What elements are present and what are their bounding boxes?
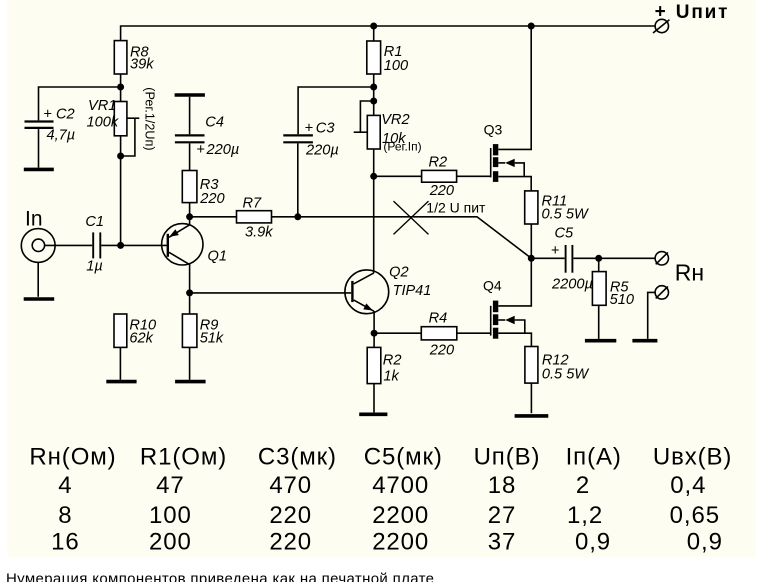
- wire Q1 collector to Q2 base: [190, 292, 352, 294]
- transistor Q2: [345, 264, 431, 313]
- svg-text:R2: R2: [429, 155, 448, 171]
- svg-text:R7: R7: [243, 196, 263, 212]
- wire rail to R1: [373, 26, 375, 41]
- resistor R2 (220): [422, 155, 457, 200]
- table: component values: [29, 444, 732, 556]
- resistor R11: [525, 191, 589, 224]
- wire In to C1: [45, 244, 93, 246]
- svg-text:2200: 2200: [372, 502, 429, 529]
- svg-text:16: 16: [51, 528, 80, 555]
- wire R7 right: [272, 216, 298, 218]
- ground (R10): [106, 380, 136, 384]
- svg-text:(Рег.Iп): (Рег.Iп): [383, 140, 421, 154]
- capacitor C1: [85, 214, 104, 275]
- transistor Q1: [162, 224, 227, 265]
- wire VR2 bottom to Q2 collector: [373, 149, 375, 273]
- svg-text:27: 27: [488, 502, 517, 529]
- terminal: Rн upper: [655, 252, 704, 286]
- svg-text:220µ: 220µ: [305, 143, 339, 159]
- svg-text:4: 4: [58, 472, 72, 499]
- svg-text:Uпит: Uпит: [676, 2, 729, 23]
- resistor R3: [182, 171, 224, 208]
- svg-text:470: 470: [269, 472, 312, 499]
- node: C5/R5: [595, 255, 602, 262]
- wire C1 to node: [101, 244, 120, 246]
- svg-text:62k: 62k: [129, 331, 153, 347]
- wire node to R9: [189, 293, 191, 314]
- node: R8/VR1/C2: [117, 84, 124, 91]
- svg-text:VR2: VR2: [381, 112, 409, 128]
- svg-text:220: 220: [269, 528, 312, 555]
- ground (C2): [24, 168, 54, 172]
- svg-text:+: +: [43, 107, 52, 123]
- ground (R12): [515, 414, 549, 418]
- terminal: Rн lower: [655, 286, 668, 299]
- svg-text:C1: C1: [85, 214, 104, 230]
- node: output: [528, 255, 535, 262]
- wire C4 to R3: [189, 143, 191, 170]
- wire VR2 top: [373, 101, 375, 115]
- ground (R9): [175, 380, 206, 384]
- resistor R12: [525, 347, 589, 384]
- svg-text:3.9k: 3.9k: [245, 225, 273, 241]
- svg-text:1k: 1k: [383, 369, 399, 385]
- svg-text:4,7µ: 4,7µ: [47, 128, 76, 144]
- resistor R9: [182, 314, 224, 347]
- wire C3 top to R1 node: [298, 87, 374, 134]
- svg-text:37: 37: [488, 528, 517, 555]
- svg-text:8: 8: [58, 502, 72, 529]
- svg-text:4700: 4700: [372, 472, 429, 499]
- marker X (1/2 Uпит): [394, 200, 487, 235]
- svg-text:In: In: [25, 207, 43, 230]
- wire C2 to ground: [38, 129, 40, 168]
- svg-text:220: 220: [269, 502, 312, 529]
- wire Q1 collector down: [189, 264, 191, 293]
- svg-text:0.5 5W: 0.5 5W: [542, 367, 589, 383]
- capacitor C3: [283, 121, 338, 159]
- potentiometer VR1: [87, 87, 157, 156]
- wire R3 to node: [189, 203, 191, 217]
- svg-text:R2: R2: [383, 353, 402, 369]
- svg-text:C5: C5: [555, 226, 575, 242]
- svg-text:18: 18: [488, 472, 517, 499]
- wire Q4 drain to output node: [498, 258, 531, 306]
- capacitor C4: [175, 115, 239, 158]
- svg-text:220: 220: [429, 343, 454, 359]
- svg-text:Rн: Rн: [675, 259, 704, 285]
- svg-text:Нумерация компонентов приведен: Нумерация компонентов приведена как на п…: [6, 571, 434, 582]
- wire R4 to Q4 gate: [457, 332, 490, 334]
- wire Q3 drain to rail: [498, 26, 531, 149]
- svg-text:220: 220: [199, 191, 224, 207]
- ground (R2 1k): [359, 412, 387, 416]
- svg-text:2200: 2200: [372, 528, 429, 555]
- wire VR1 bottom down to C1 node: [120, 136, 122, 246]
- ground (C4 top, inverted): [175, 93, 205, 97]
- node: VR2 top: [370, 98, 377, 105]
- svg-text:220: 220: [429, 183, 454, 199]
- svg-text:1,2: 1,2: [567, 502, 603, 529]
- wire R11 to output node: [530, 224, 532, 258]
- resistor R5: [592, 272, 634, 308]
- ground (R5): [585, 339, 616, 343]
- caption: [6, 571, 434, 582]
- wire C3 bottom: [297, 143, 299, 216]
- svg-text:0,4: 0,4: [670, 472, 706, 499]
- capacitor C2: [25, 107, 76, 144]
- node: Q2 emitter/R4/R2: [371, 330, 378, 337]
- node: rail/Q3 junction: [528, 23, 535, 30]
- svg-text:С3(мк): С3(мк): [258, 444, 337, 471]
- wire Q2 emitter down: [373, 311, 375, 333]
- resistor R2 (1k): [367, 347, 401, 384]
- svg-text:С5(мк): С5(мк): [364, 444, 443, 471]
- node: R7/C3: [294, 213, 301, 220]
- wire Q3 source to R11: [498, 177, 531, 191]
- svg-text:С2: С2: [56, 107, 75, 123]
- wire node to Q1 base: [121, 244, 167, 246]
- wire node to R4: [374, 332, 421, 334]
- svg-text:Uп(В): Uп(В): [474, 444, 541, 471]
- svg-text:510: 510: [610, 292, 634, 308]
- svg-text:200: 200: [149, 528, 192, 555]
- wire In to ground: [37, 262, 39, 296]
- wire to C2: [39, 87, 121, 120]
- svg-text:R1(Ом): R1(Ом): [140, 444, 227, 471]
- wire ground to C4: [189, 97, 191, 135]
- node: VR2 bottom/R2: [370, 173, 377, 180]
- svg-text:0,65: 0,65: [670, 502, 720, 529]
- svg-text:C4: C4: [205, 115, 224, 131]
- svg-text:2200µ: 2200µ: [551, 277, 593, 293]
- node: Q1 collector/R9/Q2 base: [186, 289, 193, 296]
- ground (terminal): [632, 339, 657, 343]
- wire R8 bottom: [120, 74, 122, 87]
- svg-text:1µ: 1µ: [86, 259, 103, 275]
- wire R9 to ground: [189, 347, 191, 379]
- node: VR1 bottom: [117, 153, 124, 160]
- svg-text:Uвх(В): Uвх(В): [653, 444, 732, 471]
- svg-text:Q3: Q3: [484, 121, 503, 137]
- svg-text:+: +: [655, 2, 666, 23]
- wire to output (with bend): [298, 217, 532, 258]
- wire R5 to ground: [598, 305, 600, 339]
- svg-text:Q4: Q4: [483, 278, 502, 294]
- node: C1/Q1 base: [117, 242, 124, 249]
- svg-text:39k: 39k: [130, 57, 154, 73]
- resistor R10: [114, 314, 156, 347]
- wire Q1 emitter up: [189, 217, 191, 225]
- svg-text:Q2: Q2: [389, 264, 408, 280]
- wire Q4 source to R12: [498, 333, 531, 346]
- connector In: [21, 207, 55, 262]
- svg-text:100: 100: [149, 502, 192, 529]
- resistor R7: [237, 196, 274, 241]
- wire R12 to ground: [530, 383, 532, 413]
- svg-text:+: +: [196, 142, 205, 158]
- svg-text:+: +: [551, 243, 560, 259]
- svg-text:100: 100: [384, 58, 408, 74]
- svg-text:220µ: 220µ: [206, 142, 240, 158]
- wire VR1 top: [120, 87, 122, 102]
- svg-text:51k: 51k: [200, 331, 224, 347]
- svg-text:100k: 100k: [87, 115, 119, 131]
- svg-text:Q1: Q1: [208, 248, 227, 264]
- terminal: +Uпит: [653, 2, 729, 33]
- potentiometer VR2: [354, 101, 422, 154]
- svg-text:С3: С3: [316, 121, 335, 137]
- wire R2 to Q3 gate: [457, 175, 490, 177]
- svg-text:0.5 5W: 0.5 5W: [542, 207, 589, 223]
- wire: +V top rail: [121, 26, 655, 41]
- svg-text:VR1: VR1: [88, 98, 116, 114]
- transistor Q4 (MOSFET): [483, 278, 525, 339]
- svg-text:1/2 U пит: 1/2 U пит: [426, 200, 486, 216]
- transistor Q3 (MOSFET): [484, 121, 525, 182]
- wire R10 to ground: [119, 347, 121, 379]
- wire node to R7: [190, 216, 237, 218]
- svg-text:TIP41: TIP41: [393, 283, 432, 299]
- wire node to R5: [598, 258, 600, 271]
- svg-text:R4: R4: [429, 311, 448, 327]
- svg-text:2: 2: [576, 472, 590, 499]
- wire C5 to node: [573, 257, 598, 259]
- node: rail/R1 junction: [370, 23, 377, 30]
- resistor R1: [367, 41, 408, 74]
- wire output to C5: [531, 257, 564, 259]
- node: R1/C3: [370, 84, 377, 91]
- resistor R8: [114, 41, 154, 74]
- node: R3/Q1 emitter/R7: [186, 213, 193, 220]
- wire R1 bottom: [373, 74, 375, 101]
- svg-text:+: +: [305, 121, 314, 137]
- svg-text:0,9: 0,9: [687, 528, 723, 555]
- wire node to R2 (1k): [373, 333, 375, 347]
- wire node to terminal: [599, 257, 655, 259]
- wire node to R2: [374, 175, 422, 177]
- svg-text:(Рег.1/2Uп): (Рег.1/2Uп): [142, 87, 156, 150]
- wire R2 to ground: [373, 384, 375, 413]
- svg-text:0,9: 0,9: [575, 528, 611, 555]
- wire terminal to ground: [648, 292, 655, 339]
- svg-text:Iп(А): Iп(А): [566, 444, 622, 471]
- svg-text:Rн(Ом): Rн(Ом): [29, 444, 116, 471]
- svg-text:47: 47: [156, 472, 185, 499]
- capacitor C5: [551, 226, 593, 293]
- resistor R4: [421, 311, 457, 359]
- ground (In): [24, 297, 55, 301]
